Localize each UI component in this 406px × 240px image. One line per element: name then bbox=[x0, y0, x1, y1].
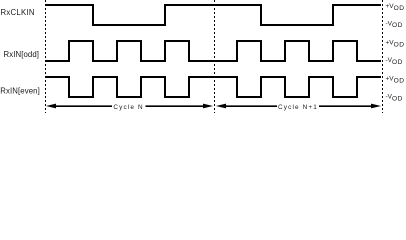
svg-text:RxIN[odd]: RxIN[odd] bbox=[4, 50, 40, 59]
svg-text:+VOD: +VOD bbox=[386, 76, 405, 85]
node: Cycle N+1 arrowhead left bbox=[216, 104, 226, 109]
wire: Cycle N dimension arrow shaft right bbox=[146, 105, 205, 107]
svg-text:RxIN[even]: RxIN[even] bbox=[0, 86, 40, 95]
wire: RxIN[even] waveform trace bbox=[45, 77, 381, 97]
svg-text:-VOD: -VOD bbox=[386, 94, 403, 103]
wire: Cycle N dimension arrow shaft left bbox=[55, 105, 112, 107]
wire: Cycle N+1 dimension arrow shaft right bbox=[319, 105, 372, 107]
node: Cycle N+1 arrowhead right bbox=[371, 104, 381, 109]
node: cycle boundary middle (dotted) bbox=[214, 0, 216, 113]
node: cycle boundary right (dotted) bbox=[382, 0, 384, 113]
svg-text:+VOD: +VOD bbox=[386, 40, 405, 49]
svg-text:Cycle N: Cycle N bbox=[113, 104, 143, 111]
wire: RxIN[odd] waveform trace bbox=[45, 41, 381, 61]
svg-text:RxCLKIN: RxCLKIN bbox=[1, 8, 35, 17]
svg-text:Cycle N+1: Cycle N+1 bbox=[278, 104, 318, 111]
node: Cycle N arrowhead left bbox=[46, 104, 56, 109]
svg-text:-VOD: -VOD bbox=[386, 57, 403, 66]
node: Cycle N arrowhead right bbox=[203, 104, 213, 109]
node: cycle boundary left (dotted) bbox=[45, 0, 47, 113]
svg-text:-VOD: -VOD bbox=[386, 20, 403, 29]
wire: RxCLKIN waveform trace bbox=[45, 5, 381, 25]
wire: Cycle N+1 dimension arrow shaft left bbox=[225, 105, 277, 107]
svg-text:+VOD: +VOD bbox=[386, 3, 405, 12]
